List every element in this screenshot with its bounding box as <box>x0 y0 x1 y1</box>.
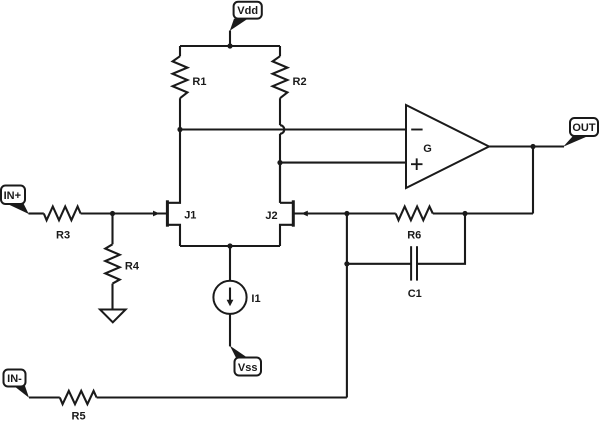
svg-text:R3: R3 <box>56 230 70 242</box>
net label IN+ <box>1 186 29 215</box>
net label Vdd <box>230 2 262 31</box>
node R3 R4 junction <box>110 211 115 216</box>
transistor J2 <box>265 163 307 246</box>
node C1 left <box>344 261 349 266</box>
svg-text:R4: R4 <box>125 260 140 272</box>
wire R2 lower <box>279 134 281 203</box>
capacitor C1 <box>347 214 465 301</box>
svg-text:R5: R5 <box>72 411 86 422</box>
op-amp G <box>406 105 489 188</box>
wire feedback vertical <box>532 147 534 214</box>
wire feedback to R6 <box>465 212 533 214</box>
resistor R3 <box>29 207 113 242</box>
wire left vertical branch <box>346 214 348 398</box>
resistor R5 <box>29 391 347 422</box>
node R6 right <box>462 211 467 216</box>
svg-text:C1: C1 <box>408 288 422 300</box>
wire hop (R2 wire hops over minus input wire) <box>280 125 284 134</box>
net label Vss <box>230 346 261 376</box>
resistor R4 <box>105 214 140 310</box>
net label OUT <box>563 118 598 147</box>
resistor R6 <box>347 207 465 242</box>
wire I1 to Vss <box>229 314 231 347</box>
current source I1 <box>213 281 260 314</box>
wire J2 gate <box>293 212 347 214</box>
wire op-amp plus input <box>280 162 406 164</box>
resistor R1 <box>173 46 207 130</box>
node R1 bottom <box>177 127 182 132</box>
wire op-amp output <box>489 145 564 147</box>
svg-text:J2: J2 <box>265 210 277 222</box>
ground <box>100 310 126 323</box>
svg-text:R2: R2 <box>293 76 307 88</box>
wire op-amp minus input <box>180 128 406 130</box>
wire tail down <box>229 246 231 281</box>
svg-text:G: G <box>423 143 432 155</box>
svg-text:Vdd: Vdd <box>237 5 258 17</box>
resistor R2 <box>273 46 307 125</box>
node output junction <box>530 144 535 149</box>
node tail junction <box>227 243 232 248</box>
transistor J1 <box>113 130 197 247</box>
wire top rail Vdd node <box>180 45 280 47</box>
svg-text:I1: I1 <box>251 293 260 305</box>
svg-text:J1: J1 <box>184 209 196 221</box>
net label IN- <box>4 370 30 398</box>
svg-text:R1: R1 <box>192 76 206 88</box>
node R6 left <box>344 211 349 216</box>
svg-text:IN+: IN+ <box>4 190 21 202</box>
svg-text:OUT: OUT <box>572 122 596 134</box>
wire Vdd stub <box>229 31 231 47</box>
svg-text:R6: R6 <box>407 230 421 242</box>
svg-text:Vss: Vss <box>238 362 258 374</box>
svg-text:IN-: IN- <box>7 373 22 385</box>
node top rail junction <box>227 43 232 48</box>
node R2 bottom plus tap <box>277 160 282 165</box>
wire sources rail <box>180 245 280 247</box>
